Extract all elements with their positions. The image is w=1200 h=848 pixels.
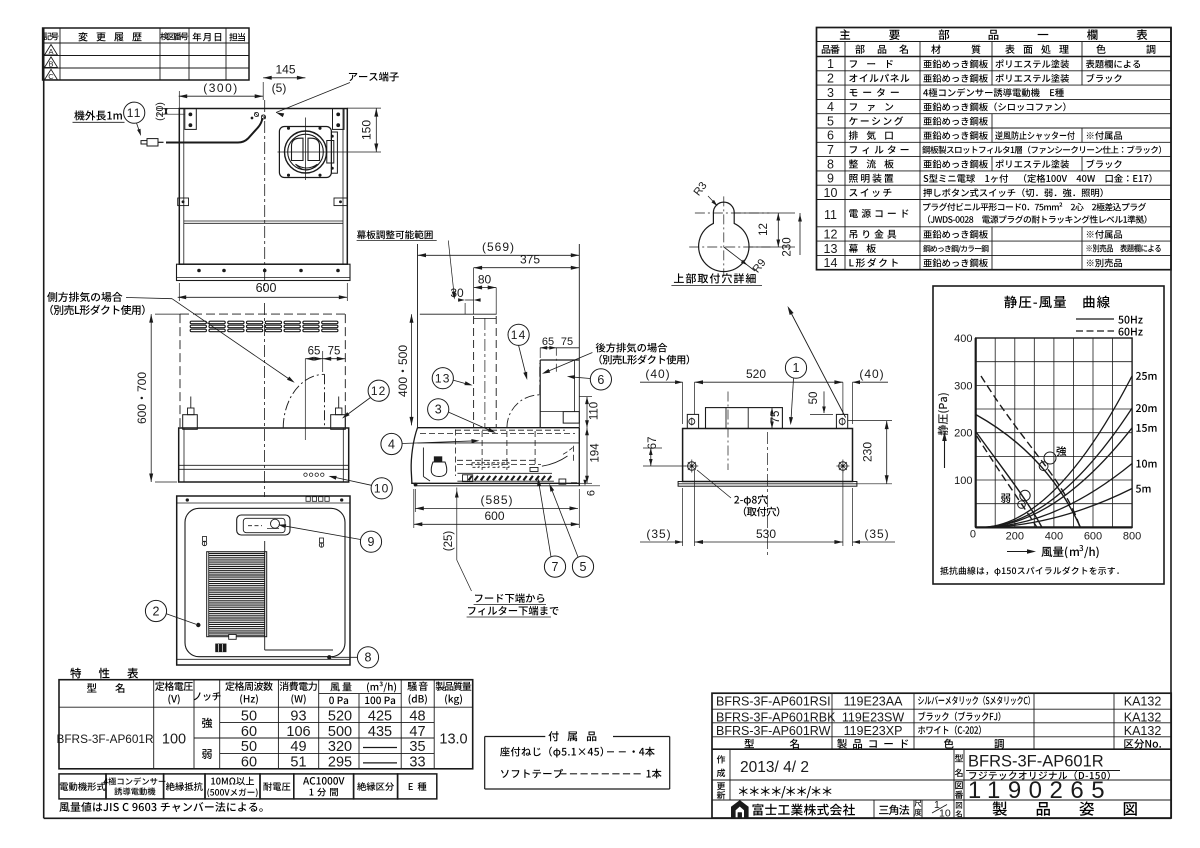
dim 65 75 front <box>305 358 345 360</box>
dim (300) <box>179 95 264 97</box>
revision marks A B C <box>45 45 58 56</box>
svg-text:75: 75 <box>561 336 573 348</box>
svg-text:C: C <box>48 72 54 81</box>
svg-text:100: 100 <box>162 732 186 748</box>
svg-text:11: 11 <box>127 106 142 120</box>
svg-text:KA132: KA132 <box>1124 710 1162 724</box>
side filter slats <box>469 476 552 480</box>
dim (25) <box>456 488 458 561</box>
drawing name <box>993 801 1137 815</box>
balloon 1 <box>785 357 806 378</box>
svg-text:48: 48 <box>409 708 425 724</box>
keyhole detail <box>699 202 749 271</box>
label strong <box>1056 446 1066 456</box>
dim 400-500 <box>411 314 413 425</box>
svg-text:600: 600 <box>484 509 504 523</box>
svg-text:230: 230 <box>782 237 794 256</box>
svg-text:600: 600 <box>256 281 277 295</box>
dim (569) <box>418 254 580 256</box>
svg-text:400・500: 400・500 <box>396 345 410 397</box>
keyhole crosshairs <box>695 212 770 214</box>
top view duct centerline <box>727 392 729 471</box>
characteristics table <box>59 680 473 769</box>
exhaust adapter plate <box>279 127 331 178</box>
svg-text:2013/ 4/ 2: 2013/ 4/ 2 <box>740 759 809 776</box>
svg-text:A: A <box>48 47 53 56</box>
dim 80 <box>474 287 497 289</box>
chart y axis arrow <box>944 437 946 468</box>
duct cover dashed <box>420 313 497 315</box>
side exhaust note <box>47 292 122 302</box>
svg-text:BFRS-3F-AP601RSI: BFRS-3F-AP601RSI <box>716 694 831 708</box>
accessories box <box>484 737 486 790</box>
svg-text:7: 7 <box>827 143 834 157</box>
rear view body <box>179 109 347 265</box>
svg-text:80: 80 <box>478 273 492 287</box>
svg-text:520: 520 <box>746 367 766 381</box>
chart title <box>1004 296 1110 309</box>
power cord plug <box>141 141 147 144</box>
svg-text:67: 67 <box>647 437 659 450</box>
chart legend 60Hz <box>1076 330 1114 332</box>
balloon 3 <box>428 399 449 420</box>
svg-text:60: 60 <box>241 724 257 740</box>
filter hatched <box>207 552 267 637</box>
switch buttons <box>304 473 307 476</box>
adapter crosshair <box>278 151 382 153</box>
side hood front profile <box>411 428 417 484</box>
svg-text:145: 145 <box>275 63 295 77</box>
motor info table <box>59 774 106 799</box>
dim 600 rear <box>178 296 348 298</box>
filter clip notch <box>229 635 237 640</box>
svg-text:33: 33 <box>409 755 425 771</box>
adapter screws <box>287 127 289 129</box>
side tabs <box>178 198 189 206</box>
svg-text:BFRS-3F-AP601RW: BFRS-3F-AP601RW <box>716 724 831 738</box>
svg-text:425: 425 <box>368 708 392 724</box>
accessory line 2 <box>501 769 563 778</box>
chart x axis title <box>1007 551 1030 553</box>
phantom rear L-duct <box>507 395 540 428</box>
balloon 7 <box>544 556 565 577</box>
company name <box>752 804 854 816</box>
svg-text:50: 50 <box>241 708 257 724</box>
top view body <box>683 429 853 482</box>
svg-text:2: 2 <box>827 72 834 86</box>
svg-text:(35): (35) <box>646 527 671 541</box>
svg-text:50: 50 <box>241 739 257 755</box>
side filter boundary <box>457 472 552 474</box>
svg-text:3: 3 <box>435 403 442 417</box>
drain box <box>216 644 226 652</box>
dim 600 side <box>414 523 580 525</box>
side hood bottom <box>411 482 579 484</box>
keyhole dim 12 <box>734 212 795 214</box>
svg-text:(20): (20) <box>154 102 166 121</box>
side view wall lines <box>417 244 419 428</box>
svg-text:KA132: KA132 <box>1124 694 1162 708</box>
dim 145 <box>263 77 305 79</box>
page frame <box>43 28 45 818</box>
top view mounting holes 2-phi8 <box>688 462 696 470</box>
svg-text:200: 200 <box>954 428 972 440</box>
title block model name cell <box>955 754 963 762</box>
label weak <box>1001 494 1010 503</box>
chart box <box>933 286 1164 584</box>
svg-text:47: 47 <box>409 724 425 740</box>
dim 75 <box>771 408 773 429</box>
lamp box <box>237 515 290 535</box>
balloon 4 <box>381 433 402 454</box>
dims 35 530 35 <box>640 541 683 543</box>
lamp bulb <box>271 519 280 528</box>
balloon 11 <box>124 102 145 123</box>
svg-text:12: 12 <box>371 384 387 398</box>
front centerline <box>264 303 266 497</box>
svg-text:50: 50 <box>808 392 820 405</box>
svg-text:BFRS-3F-AP601R: BFRS-3F-AP601R <box>56 732 153 746</box>
phantom L-duct arc <box>283 374 324 428</box>
bottom screws <box>202 541 206 545</box>
svg-text:295: 295 <box>328 755 352 771</box>
svg-text:BFRS-3F-AP601R: BFRS-3F-AP601R <box>968 753 1104 771</box>
chart legend 50Hz <box>1076 318 1114 320</box>
shutter panels <box>292 138 304 160</box>
dim 230 top view <box>848 420 892 422</box>
balloon 14 <box>508 324 529 345</box>
title block <box>712 693 1171 818</box>
side lamp <box>431 462 447 477</box>
svg-text:1190265: 1190265 <box>968 777 1112 804</box>
svg-text:35: 35 <box>409 739 425 755</box>
svg-text:93: 93 <box>290 708 306 724</box>
svg-text:800: 800 <box>1123 531 1141 543</box>
company row <box>873 800 875 818</box>
svg-text:75: 75 <box>770 411 782 424</box>
front view hidden outline <box>180 313 345 315</box>
rear exhaust note <box>596 343 668 353</box>
top view rear brackets <box>687 414 698 428</box>
rear centerline <box>264 100 266 290</box>
fan curve weak 50Hz <box>976 432 1042 528</box>
svg-text:14: 14 <box>824 256 838 270</box>
bottom view outer <box>177 496 350 665</box>
detail title <box>674 273 756 283</box>
duct resistance curves <box>980 489 1132 528</box>
side hood top <box>418 427 580 429</box>
svg-text:435: 435 <box>368 724 392 740</box>
fan curve weak 60Hz dashed <box>977 436 1037 527</box>
balloon 13 <box>432 368 453 389</box>
dim 194 <box>580 482 593 484</box>
side small parts <box>463 475 473 482</box>
dim 150 <box>347 107 381 109</box>
svg-text:13.0: 13.0 <box>439 732 467 748</box>
svg-text:106: 106 <box>286 724 310 740</box>
svg-text:4: 4 <box>827 100 834 114</box>
svg-text:R3: R3 <box>692 180 710 198</box>
svg-text:65: 65 <box>542 336 554 348</box>
svg-text:(25): (25) <box>443 531 455 552</box>
svg-text:530: 530 <box>756 527 776 541</box>
svg-text:119E23SW: 119E23SW <box>842 710 905 724</box>
dim 65 75 side <box>540 347 579 349</box>
dim 600-700 <box>150 314 152 482</box>
revision history table <box>43 28 249 80</box>
svg-text:0: 0 <box>970 529 976 541</box>
svg-text:12: 12 <box>824 228 838 242</box>
exhaust outlet box side <box>540 359 579 361</box>
dims 40 520 40 <box>640 381 683 383</box>
svg-text:200: 200 <box>1006 531 1024 543</box>
svg-text:5: 5 <box>580 560 587 574</box>
svg-text:BFRS-3F-AP601RBK: BFRS-3F-AP601RBK <box>716 710 836 724</box>
svg-text:1: 1 <box>827 57 834 71</box>
dim 50 <box>810 413 833 415</box>
svg-text:KA132: KA132 <box>1124 724 1162 738</box>
svg-text:12: 12 <box>758 223 770 236</box>
svg-text:(35): (35) <box>864 527 889 541</box>
svg-text:520: 520 <box>328 708 352 724</box>
svg-text:(40): (40) <box>645 367 670 381</box>
top view body centerline <box>767 432 769 558</box>
svg-text:119E23AA: 119E23AA <box>844 694 904 708</box>
front lower band <box>179 428 349 482</box>
svg-text:10: 10 <box>374 482 390 496</box>
parts list table <box>817 28 1172 270</box>
top view duct box <box>706 408 783 429</box>
svg-text:2: 2 <box>153 604 160 618</box>
svg-text:60: 60 <box>241 755 257 771</box>
fan curve strong 50Hz <box>976 415 1081 528</box>
svg-text:9: 9 <box>368 535 375 549</box>
svg-text:R9: R9 <box>751 257 769 275</box>
svg-text:375: 375 <box>520 253 540 267</box>
svg-text:150: 150 <box>360 120 374 140</box>
svg-text:230: 230 <box>861 442 875 462</box>
balloon 2 <box>145 600 166 621</box>
power cord <box>166 118 262 143</box>
top view front band <box>678 482 857 487</box>
side internals dashed <box>420 433 575 435</box>
vent louvres <box>190 321 206 324</box>
oil panel rounded rect <box>185 508 345 656</box>
duct centerline side <box>484 318 486 428</box>
rear view bottom band <box>177 264 351 280</box>
svg-text:194: 194 <box>590 443 602 463</box>
adapter side tab <box>331 132 337 173</box>
svg-text:9: 9 <box>827 172 834 186</box>
svg-text:600・700: 600・700 <box>135 372 149 424</box>
svg-text:51: 51 <box>290 755 306 771</box>
dim (20) <box>157 108 179 110</box>
svg-text:65: 65 <box>308 346 321 358</box>
svg-text:7: 7 <box>552 560 559 574</box>
svg-text:600: 600 <box>1084 531 1102 543</box>
svg-text:10: 10 <box>824 186 838 200</box>
svg-text:119E23XP: 119E23XP <box>844 724 903 738</box>
svg-text:(300): (300) <box>203 81 239 95</box>
svg-text:8: 8 <box>827 157 834 171</box>
svg-text:500: 500 <box>328 724 352 740</box>
svg-text:1: 1 <box>793 361 800 375</box>
balloon 6 <box>590 369 611 390</box>
chart note <box>940 566 1119 575</box>
dim 110 <box>579 396 592 398</box>
dim (585) <box>415 507 578 509</box>
projection method <box>879 805 909 815</box>
dim 375 <box>474 267 580 269</box>
characteristics table title <box>70 668 138 679</box>
accessory line 1 <box>500 747 603 758</box>
dim 67 <box>643 447 662 449</box>
svg-text:110: 110 <box>589 402 601 420</box>
svg-text:B: B <box>48 60 53 69</box>
balloon 5 <box>572 556 593 577</box>
svg-text:300: 300 <box>954 380 972 392</box>
cord length label <box>74 110 122 120</box>
filter note <box>475 593 544 603</box>
keyhole dim 230 <box>799 213 801 255</box>
svg-text:(40): (40) <box>859 367 884 381</box>
baffle boundary <box>264 541 266 650</box>
side exhaust leader <box>126 298 172 299</box>
front brackets <box>188 408 195 415</box>
left hanging bracket <box>185 109 197 130</box>
balloon 10 <box>371 478 392 499</box>
jis note <box>59 802 262 812</box>
hole label 2-phi8 <box>697 470 731 498</box>
svg-text:(585): (585) <box>480 493 513 507</box>
svg-text:6: 6 <box>827 129 834 143</box>
chart grid <box>975 338 977 527</box>
bottom view top tabs <box>306 497 310 502</box>
detail leader arrow <box>789 309 846 418</box>
svg-text:10: 10 <box>939 808 951 820</box>
svg-text:14: 14 <box>511 328 527 342</box>
fan curve strong 60Hz dashed <box>981 376 1080 527</box>
svg-text:8: 8 <box>365 651 372 665</box>
svg-text:13: 13 <box>824 242 838 256</box>
svg-text:(569): (569) <box>482 240 515 254</box>
svg-text:400: 400 <box>954 333 972 345</box>
balloon 8 <box>357 647 378 668</box>
svg-text:100: 100 <box>954 475 972 487</box>
svg-text:(5): (5) <box>272 81 287 95</box>
svg-text:75: 75 <box>328 346 341 358</box>
title block bottom-left <box>729 749 731 800</box>
svg-text:11: 11 <box>824 208 837 222</box>
drawing number cell <box>955 781 963 789</box>
svg-text:400: 400 <box>1045 531 1063 543</box>
svg-text:5: 5 <box>827 114 834 128</box>
svg-text:13: 13 <box>435 372 451 386</box>
company logo <box>732 801 749 818</box>
dim 30 <box>465 299 474 301</box>
chart y axis title <box>938 393 949 435</box>
earth terminal screws <box>254 112 258 116</box>
makuita label <box>357 230 433 239</box>
svg-text:320: 320 <box>328 739 352 755</box>
earth terminal label <box>349 72 399 82</box>
svg-text:6: 6 <box>586 490 598 496</box>
svg-text:3: 3 <box>827 86 834 100</box>
svg-text:4: 4 <box>388 437 395 451</box>
balloon 12 <box>368 380 389 401</box>
svg-text:6: 6 <box>597 373 604 387</box>
svg-text:49: 49 <box>290 739 306 755</box>
right hanging bracket <box>333 109 345 130</box>
balloon 9 <box>360 531 381 552</box>
